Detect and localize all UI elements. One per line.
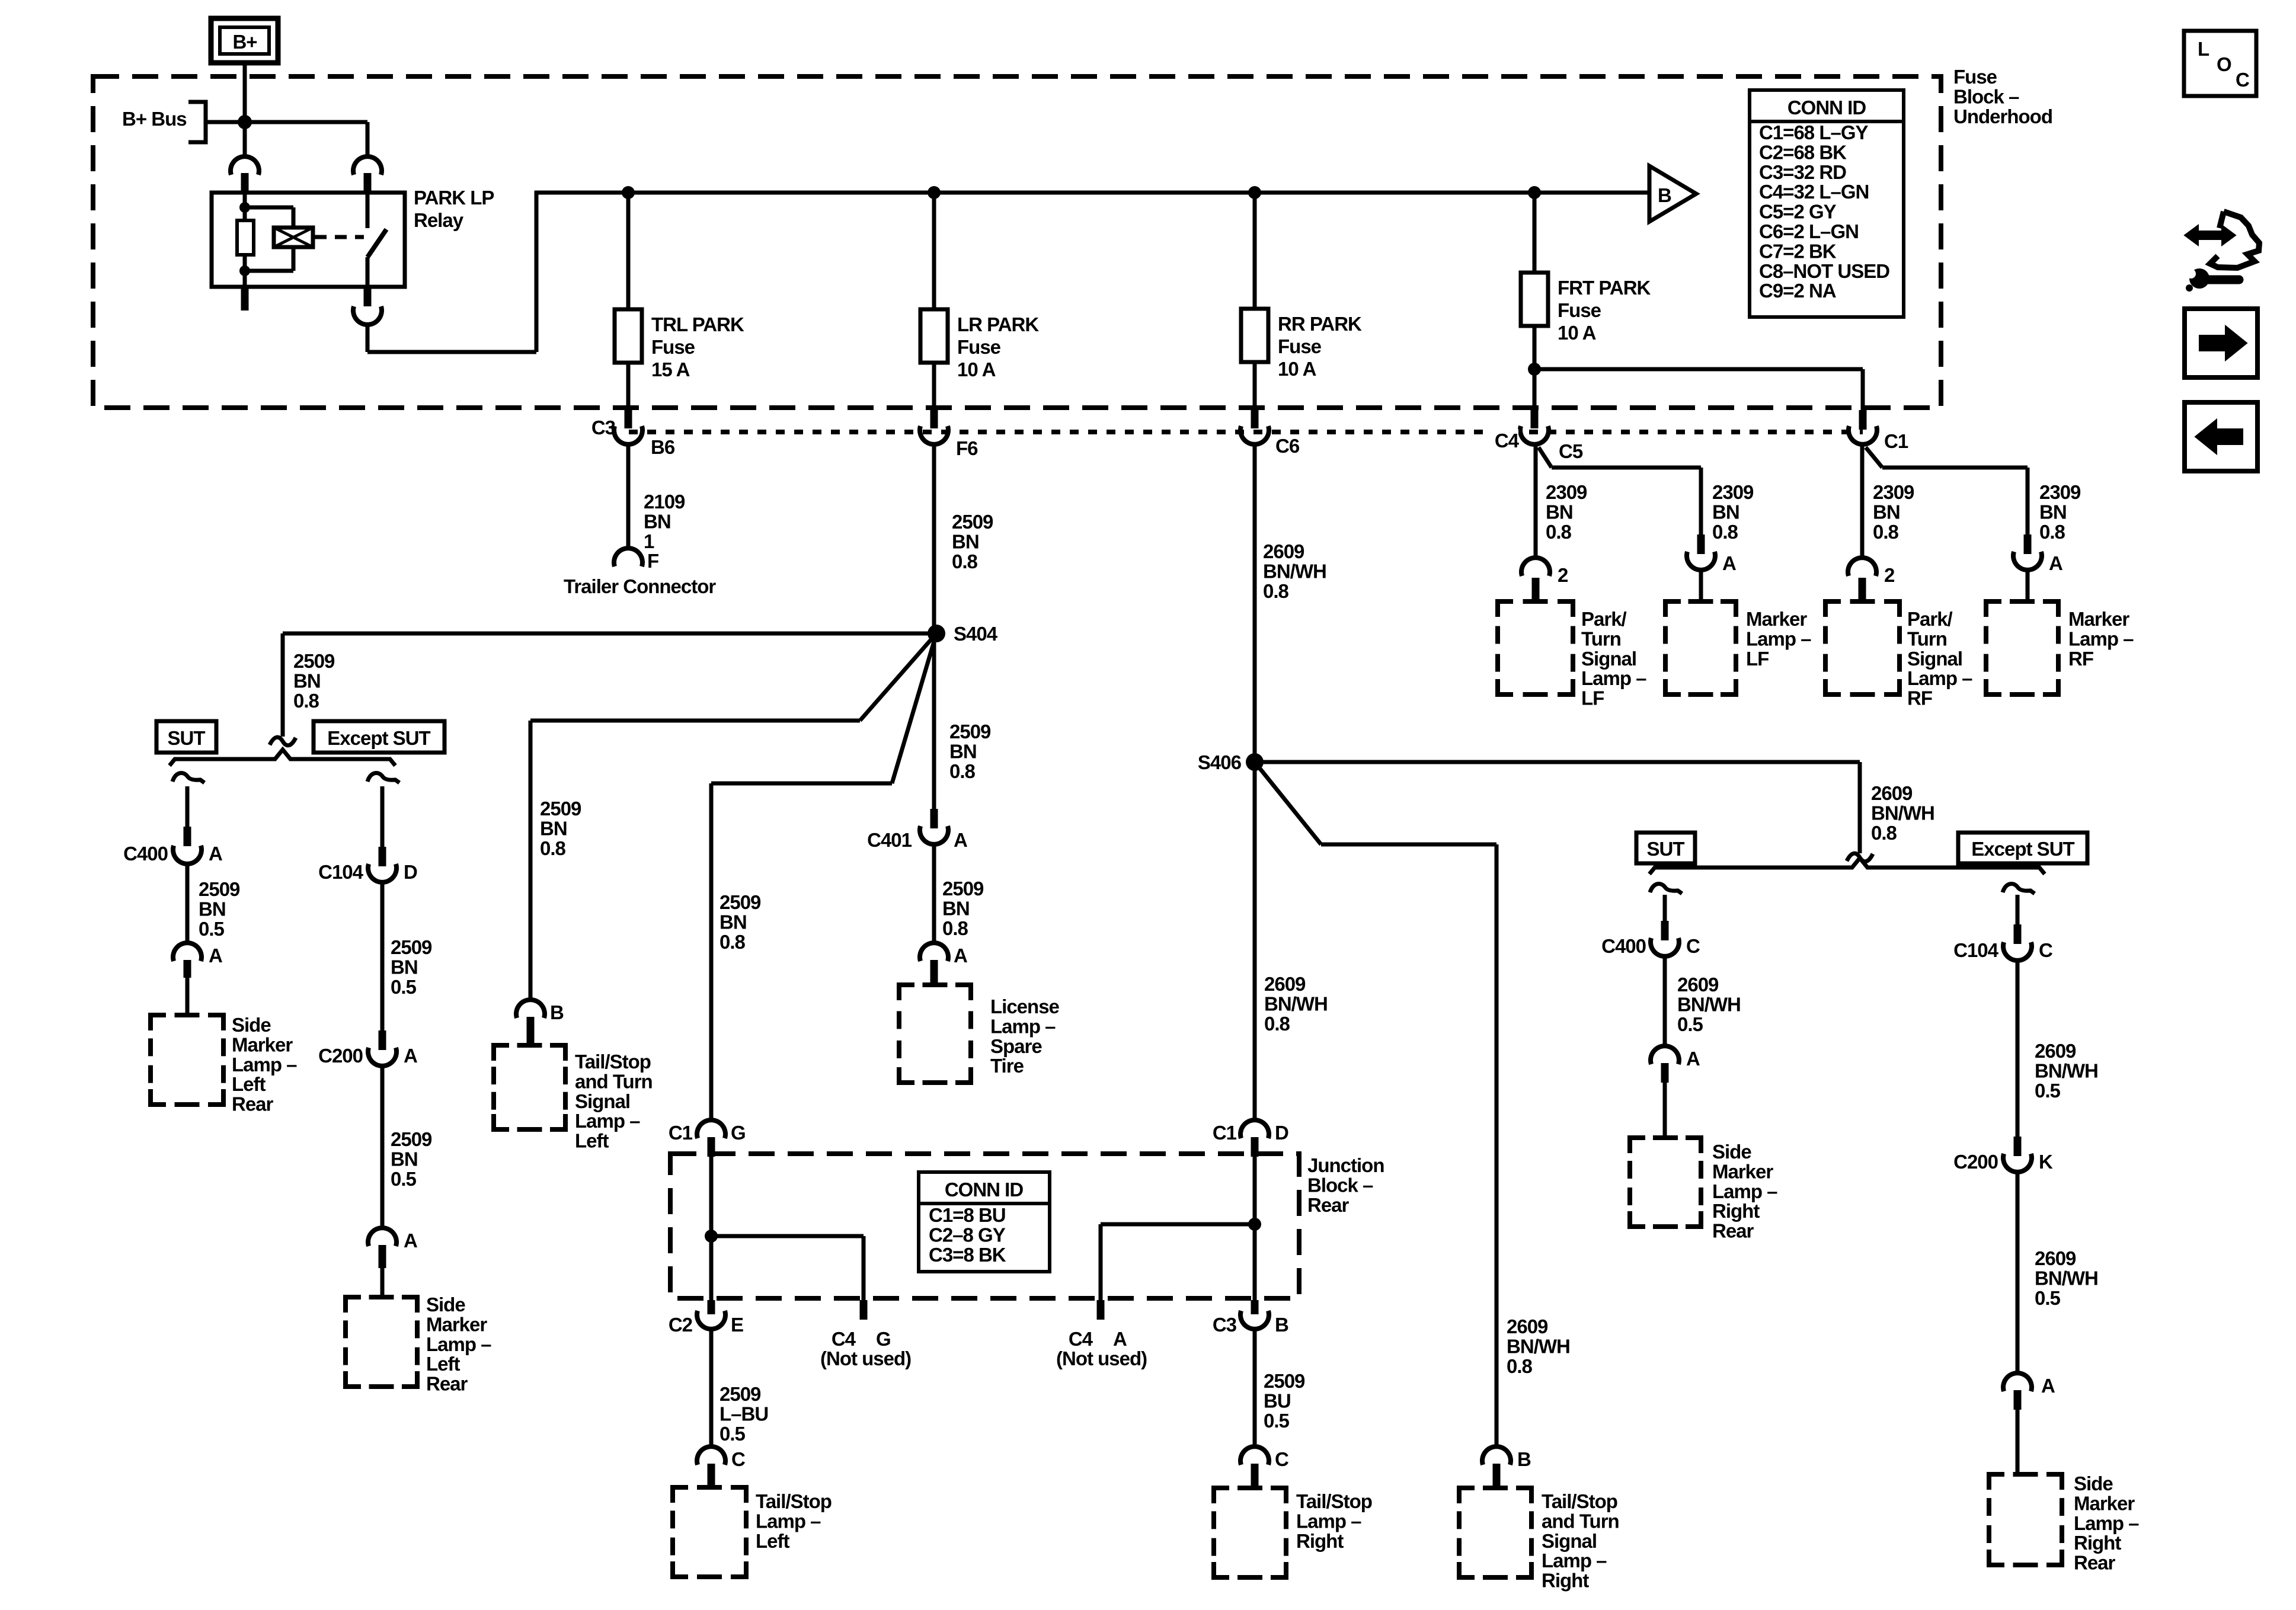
wire marker LF to box — [1699, 572, 1703, 601]
svg-text:Right: Right — [1712, 1200, 1760, 1222]
node S404 splice dot — [928, 625, 945, 642]
svg-text:C3: C3 — [1213, 1314, 1237, 1336]
svg-text:C1=8 BU: C1=8 BU — [929, 1204, 1006, 1226]
svg-text:C7=2 BK: C7=2 BK — [1759, 240, 1837, 262]
fuse TRL PARK 15A — [615, 309, 642, 363]
svg-text:BN: BN — [1712, 501, 1739, 523]
svg-text:2609: 2609 — [1263, 540, 1304, 562]
pin tail/stop lamp left — [708, 1464, 715, 1488]
connector C1 D cap — [1240, 1120, 1269, 1138]
wire TRL fuse to connector — [626, 363, 631, 410]
wire relay coil internal top — [243, 193, 247, 220]
pin park/turn RF — [1859, 578, 1866, 601]
pin C3 B6 — [625, 409, 632, 428]
svg-text:SUT: SUT — [1647, 838, 1685, 860]
wire relay switch to bottom — [366, 257, 370, 287]
relay coil pin — [241, 173, 249, 193]
svg-text:BN: BN — [540, 817, 567, 839]
svg-text:E: E — [731, 1314, 743, 1336]
branch curl Except SUT right — [2003, 884, 2035, 894]
svg-text:Park/: Park/ — [1907, 608, 1953, 630]
svg-text:C: C — [1275, 1448, 1288, 1470]
pin license lamp — [930, 960, 938, 985]
svg-text:Fuse: Fuse — [651, 336, 695, 358]
svg-text:C1: C1 — [669, 1122, 693, 1144]
tail/stop lamp - left box — [673, 1487, 688, 1503]
wire break squiggle left group — [270, 737, 296, 745]
svg-text:C200: C200 — [1953, 1151, 1998, 1173]
svg-text:C5=2 GY: C5=2 GY — [1759, 201, 1837, 223]
svg-text:A: A — [954, 945, 967, 966]
svg-text:Rear: Rear — [2074, 1552, 2116, 1574]
svg-text:2509: 2509 — [949, 721, 991, 742]
wire sut right branch down — [1663, 895, 1667, 924]
svg-text:10 A: 10 A — [957, 359, 996, 380]
wire relay output right — [367, 350, 536, 354]
svg-text:Marker: Marker — [232, 1033, 293, 1055]
svg-text:B+: B+ — [232, 31, 257, 53]
svg-text:2509: 2509 — [720, 891, 761, 913]
svg-text:2609: 2609 — [1677, 974, 1719, 996]
connector C3 B cup — [1240, 1311, 1269, 1329]
svg-text:C104: C104 — [318, 861, 364, 883]
svg-text:0.8: 0.8 — [942, 917, 968, 939]
svg-text:C: C — [2236, 69, 2249, 91]
svg-text:10 A: 10 A — [1278, 358, 1316, 380]
svg-text:Lamp –: Lamp – — [990, 1015, 1056, 1037]
pin C104 C — [2014, 924, 2022, 944]
svg-text:LR PARK: LR PARK — [957, 313, 1039, 335]
wire LR fuse to connector — [932, 363, 936, 410]
svg-text:G: G — [876, 1328, 891, 1350]
svg-text:2509: 2509 — [1264, 1370, 1305, 1392]
svg-text:Side: Side — [2074, 1473, 2113, 1494]
svg-text:Tail/Stop: Tail/Stop — [1542, 1490, 1617, 1512]
connector C200 K cup — [2003, 1154, 2032, 1172]
wire S404 branch A diagonal — [860, 633, 936, 721]
wire FRT branch down to C1 — [1861, 369, 1865, 411]
svg-text:C4=32 L–GN: C4=32 L–GN — [1759, 181, 1869, 203]
svg-text:D: D — [404, 861, 417, 883]
svg-text:Lamp –: Lamp – — [426, 1333, 491, 1355]
svg-text:A: A — [954, 829, 967, 851]
svg-text:Lamp –: Lamp – — [2074, 1512, 2139, 1534]
svg-text:and Turn: and Turn — [575, 1070, 653, 1092]
option box Except SUT left — [314, 721, 445, 753]
wire except-sut right branch down — [2016, 895, 2020, 924]
connector 2 cap RF — [1848, 558, 1876, 576]
pin C4 G not used — [860, 1300, 868, 1320]
wire marker RF to box — [2026, 572, 2030, 601]
svg-text:0.8: 0.8 — [952, 550, 978, 572]
svg-text:LF: LF — [1746, 648, 1769, 670]
node S406 splice dot — [1246, 753, 1264, 771]
svg-text:2309: 2309 — [1712, 481, 1754, 503]
node FRT branch dot — [1528, 363, 1541, 376]
connector A cap right sut — [1651, 1046, 1679, 1064]
relay coil box — [274, 228, 313, 247]
net arrow B — [1649, 166, 1696, 222]
svg-text:A: A — [2049, 552, 2062, 574]
svg-text:Underhood: Underhood — [1953, 105, 2052, 127]
svg-text:Left: Left — [232, 1073, 266, 1095]
connector F trailer cap — [614, 548, 642, 566]
svg-text:Tail/Stop: Tail/Stop — [575, 1051, 651, 1073]
svg-text:0.5: 0.5 — [1264, 1410, 1290, 1432]
wire down to tail/stop turn right — [1495, 844, 1499, 1446]
svg-text:BN/WH: BN/WH — [2035, 1267, 2098, 1289]
fuse LR PARK 10A — [920, 309, 948, 363]
svg-text:BN: BN — [949, 740, 977, 762]
svg-text:2: 2 — [1884, 564, 1895, 586]
svg-text:Side: Side — [426, 1294, 465, 1315]
svg-text:2309: 2309 — [1546, 481, 1587, 503]
svg-text:G: G — [731, 1122, 746, 1144]
connector C104 cup — [368, 864, 396, 882]
svg-text:RR PARK: RR PARK — [1278, 313, 1362, 335]
connector B tail-stop-left cap — [516, 1000, 545, 1018]
svg-text:Block –: Block – — [1953, 85, 2019, 107]
relay switch pin connector cap — [353, 156, 382, 175]
relay coil X — [274, 228, 313, 247]
wire S404 to C401 — [932, 633, 936, 812]
wire bus to RR fuse — [1253, 193, 1257, 309]
svg-text:C: C — [731, 1448, 745, 1470]
svg-text:Signal: Signal — [575, 1090, 630, 1112]
svg-text:0.8: 0.8 — [1712, 521, 1738, 543]
svg-text:2509: 2509 — [293, 650, 335, 672]
svg-text:Junction: Junction — [1307, 1154, 1384, 1176]
connector A cup marker LF — [1687, 552, 1715, 570]
svg-text:2609: 2609 — [1507, 1315, 1548, 1337]
icon forward arrow — [2199, 326, 2247, 360]
connector A license cap — [920, 943, 948, 961]
svg-text:Tail/Stop: Tail/Stop — [756, 1490, 832, 1512]
svg-text:BN/WH: BN/WH — [2035, 1060, 2098, 1081]
tail/stop and turn signal lamp - right box — [1459, 1488, 1475, 1503]
svg-text:BN: BN — [952, 530, 979, 552]
svg-text:CONN ID: CONN ID — [1787, 97, 1866, 119]
junction block - rear dashed border — [670, 1154, 1299, 1298]
svg-text:2509: 2509 — [942, 878, 984, 900]
svg-text:C400: C400 — [1601, 935, 1646, 957]
svg-text:Block –: Block – — [1307, 1174, 1373, 1196]
wire C200K to A conn — [2016, 1174, 2020, 1372]
svg-text:C1=68 L–GY: C1=68 L–GY — [1759, 121, 1869, 143]
pin side marker left rear xsut — [379, 1245, 386, 1268]
wire relay output down — [366, 327, 370, 352]
node junction left dot — [705, 1230, 718, 1243]
wire to side marker right box — [1663, 1083, 1667, 1138]
svg-text:Except SUT: Except SUT — [1971, 838, 2074, 860]
node junction right dot — [1248, 1218, 1261, 1231]
resistor relay coil shunt — [237, 220, 254, 255]
svg-text:L–BU: L–BU — [720, 1403, 768, 1425]
wire C104 to C200 — [380, 884, 385, 1034]
pin C4 A not used — [1097, 1300, 1105, 1320]
wire S406 to C1 D — [1253, 762, 1257, 1119]
svg-text:D: D — [1275, 1122, 1288, 1144]
icon back arrow — [2195, 420, 2243, 454]
B+ power feed box — [211, 18, 278, 63]
svg-text:License: License — [990, 996, 1060, 1017]
wire S404 branch C down — [281, 633, 285, 737]
svg-text:BN/WH: BN/WH — [1871, 802, 1934, 824]
pin side marker right rear — [2014, 1390, 2022, 1410]
wire 2509 BN to S404 — [932, 446, 936, 633]
pin C4 underhood — [1531, 409, 1539, 428]
svg-text:Side: Side — [232, 1014, 271, 1036]
pin C400 C — [1661, 921, 1669, 940]
svg-text:Fuse: Fuse — [1558, 299, 1601, 321]
connector C400 C cup — [1651, 938, 1679, 956]
connector A cup marker RF — [2013, 552, 2042, 570]
svg-text:Fuse: Fuse — [1278, 335, 1322, 357]
pin tail/stop lamp right — [1251, 1464, 1259, 1488]
relay actuator dashed link — [315, 235, 364, 239]
svg-text:Left: Left — [426, 1353, 461, 1375]
wire C200 to A conn — [380, 1068, 385, 1227]
svg-text:0.8: 0.8 — [720, 931, 746, 953]
svg-text:0.8: 0.8 — [1263, 580, 1289, 602]
wire S404 branch B diagonal — [892, 633, 936, 783]
connector C400 cup — [173, 846, 202, 864]
svg-text:Lamp –: Lamp – — [1907, 667, 1972, 689]
wire C5 down — [1699, 468, 1703, 538]
wire C104C to C200K — [2016, 962, 2020, 1140]
svg-text:C2=68 BK: C2=68 BK — [1759, 141, 1847, 163]
svg-text:2509: 2509 — [952, 511, 993, 533]
wire bus to relay switch pin — [245, 120, 367, 124]
wire FRT fuse down — [1533, 326, 1537, 410]
side marker lamp - right rear box — [1989, 1474, 2004, 1490]
wire 2609 BN/WH to S406 — [1253, 446, 1257, 762]
svg-text:Signal: Signal — [1542, 1530, 1597, 1552]
node B+ bus junction dot — [238, 115, 252, 129]
svg-text:C3=32 RD: C3=32 RD — [1759, 161, 1846, 183]
wire branch to C4 A — [1101, 1222, 1255, 1227]
relay coil pin connector cap — [231, 156, 259, 175]
node bus junction FRT — [1528, 186, 1541, 199]
marker lamp RF box — [1986, 601, 2001, 617]
wire C2E to tail/stop left — [709, 1331, 714, 1446]
fuse block - underhood dashed border — [93, 76, 1941, 408]
svg-text:BN: BN — [2039, 501, 2067, 523]
svg-text:10 A: 10 A — [1558, 322, 1596, 344]
svg-text:Except SUT: Except SUT — [327, 727, 430, 749]
svg-text:C2–8 GY: C2–8 GY — [929, 1224, 1006, 1246]
svg-text:Left: Left — [756, 1530, 790, 1552]
svg-text:A: A — [1722, 552, 1736, 574]
wire bus to LR fuse — [932, 193, 936, 309]
svg-text:Relay: Relay — [414, 209, 464, 231]
side marker lamp - left rear box sut — [151, 1015, 166, 1030]
svg-text:C4: C4 — [1495, 430, 1520, 452]
wire coil branch top — [245, 206, 293, 210]
connector C6 cup — [1240, 426, 1269, 444]
svg-text:K: K — [2039, 1151, 2053, 1173]
svg-text:A: A — [404, 1230, 417, 1251]
svg-text:B: B — [1517, 1448, 1531, 1470]
svg-text:BN: BN — [199, 898, 226, 920]
svg-text:C: C — [1686, 935, 1700, 957]
node bus junction RR — [1248, 186, 1261, 199]
svg-text:0.5: 0.5 — [391, 976, 417, 998]
svg-text:Turn: Turn — [1907, 628, 1947, 649]
B+ Bus bracket — [188, 102, 206, 142]
svg-text:Marker: Marker — [426, 1313, 487, 1335]
svg-text:A: A — [1113, 1328, 1127, 1350]
side marker lamp - right box sut — [1630, 1138, 1645, 1153]
wire bus to TRL fuse — [626, 193, 631, 309]
svg-text:SUT: SUT — [168, 727, 206, 749]
svg-text:Lamp –: Lamp – — [1296, 1510, 1361, 1532]
pin park/turn LF — [1532, 578, 1540, 601]
wire C400C to A conn — [1663, 958, 1667, 1045]
connector C104 C cup — [2003, 942, 2032, 961]
node relay coil bottom dot — [239, 265, 250, 276]
svg-text:F6: F6 — [956, 437, 978, 459]
tail/stop and turn signal lamp - left box — [494, 1045, 509, 1061]
svg-text:0.5: 0.5 — [2035, 1080, 2061, 1102]
node relay coil top dot — [239, 202, 250, 213]
connector B cap tail/stop+turn right — [1482, 1446, 1511, 1465]
svg-text:0.8: 0.8 — [1264, 1013, 1290, 1035]
svg-text:Fuse: Fuse — [957, 336, 1001, 358]
wire S404 branch A horizontal — [530, 719, 860, 723]
svg-text:Spare: Spare — [990, 1035, 1042, 1057]
side marker lamp - left rear box xsut — [346, 1297, 361, 1313]
wire S406 right branch — [1255, 760, 1860, 764]
svg-text:C401: C401 — [867, 829, 912, 851]
svg-text:0.8: 0.8 — [2039, 521, 2065, 543]
svg-text:C200: C200 — [318, 1045, 363, 1067]
svg-text:Marker: Marker — [1746, 608, 1807, 630]
connector C cap tail/stop left — [697, 1446, 725, 1465]
svg-text:Tire: Tire — [990, 1055, 1024, 1077]
svg-text:(Not used): (Not used) — [820, 1347, 911, 1369]
wire S406 diag horizontal — [1321, 843, 1496, 847]
pin C6 — [1251, 409, 1259, 428]
pin C1 G — [708, 1137, 715, 1157]
svg-text:RF: RF — [2068, 648, 2093, 670]
wire relay switch internal — [366, 193, 370, 228]
svg-text:Lamp –: Lamp – — [1712, 1180, 1777, 1202]
svg-text:B+ Bus: B+ Bus — [122, 108, 187, 130]
svg-text:0.5: 0.5 — [391, 1168, 417, 1190]
svg-text:2609: 2609 — [2035, 1040, 2076, 1062]
svg-text:15 A: 15 A — [651, 359, 690, 380]
pin C2 E — [708, 1300, 715, 1314]
option box SUT left — [156, 721, 216, 753]
svg-text:2509: 2509 — [391, 936, 432, 958]
svg-text:Right: Right — [1542, 1570, 1589, 1592]
svg-text:C: C — [2039, 939, 2052, 961]
svg-text:2309: 2309 — [2039, 481, 2081, 503]
connector A cap left rear xsut — [368, 1228, 396, 1246]
svg-text:Lamp –: Lamp – — [1746, 628, 1811, 649]
svg-text:C9=2 NA: C9=2 NA — [1759, 280, 1836, 302]
svg-text:BN/WH: BN/WH — [1264, 993, 1328, 1014]
connector A cap right rear — [2003, 1373, 2032, 1391]
svg-text:PARK LP: PARK LP — [414, 187, 494, 209]
svg-text:BN: BN — [293, 670, 321, 692]
svg-text:Rear: Rear — [1307, 1194, 1350, 1216]
pin marker RF — [2024, 534, 2032, 554]
wire S404 branch B down — [709, 783, 714, 1119]
wire B+ bus junction — [206, 120, 245, 124]
wire C401 to license lamp — [932, 846, 936, 942]
svg-text:A: A — [209, 945, 222, 966]
wire main bus — [535, 191, 1651, 195]
pin C1 underhood — [1859, 410, 1867, 430]
pin C401 — [930, 809, 938, 828]
pin C400 A — [184, 827, 191, 846]
icon back arrow box — [2185, 402, 2257, 471]
svg-text:Right: Right — [2074, 1532, 2121, 1554]
park/turn signal lamp LF box — [1498, 601, 1513, 617]
svg-text:Lamp –: Lamp – — [575, 1110, 640, 1132]
svg-text:Lamp –: Lamp – — [756, 1510, 821, 1532]
option box SUT right — [1636, 833, 1695, 863]
svg-text:Lamp –: Lamp – — [2068, 628, 2134, 649]
wire riser to bus — [535, 191, 539, 352]
connector C1 G cap — [697, 1120, 725, 1138]
relay coil ground stub pin — [241, 287, 249, 311]
svg-text:BU: BU — [1264, 1390, 1291, 1411]
svg-text:B6: B6 — [651, 436, 675, 458]
svg-text:Tail/Stop: Tail/Stop — [1296, 1490, 1372, 1512]
CONN ID table rear — [919, 1172, 1050, 1272]
svg-text:Right: Right — [1296, 1530, 1344, 1552]
connector row dotted line — [629, 430, 1863, 434]
option brace right — [1649, 858, 2045, 874]
icon wrench — [2189, 268, 2209, 289]
svg-text:A: A — [1686, 1048, 1700, 1070]
svg-text:Turn: Turn — [1581, 628, 1621, 649]
svg-text:C8–NOT USED: C8–NOT USED — [1759, 260, 1889, 282]
svg-text:Signal: Signal — [1907, 648, 1962, 670]
marker lamp LF box — [1665, 601, 1681, 617]
wire to side marker left rear — [186, 978, 190, 1015]
fuse FRT PARK 10A — [1521, 273, 1548, 326]
svg-text:F: F — [647, 550, 658, 572]
svg-text:S404: S404 — [954, 623, 998, 645]
svg-text:S406: S406 — [1198, 751, 1242, 773]
svg-text:BN: BN — [644, 510, 671, 532]
svg-text:2309: 2309 — [1873, 481, 1914, 503]
wire C4 to park/turn LF — [1534, 446, 1538, 557]
svg-text:L: L — [2198, 38, 2209, 60]
wire RR fuse to connector — [1253, 362, 1257, 410]
pin C200 A — [379, 1030, 386, 1050]
wire S404 branch B horizontal — [711, 782, 892, 786]
wire C1 down — [2026, 468, 2030, 538]
svg-text:Rear: Rear — [232, 1093, 274, 1115]
icon forward arrow box — [2185, 309, 2257, 377]
svg-text:C2: C2 — [669, 1314, 693, 1336]
wire C1 horizontal — [1882, 466, 2028, 470]
svg-text:BN: BN — [1546, 501, 1573, 523]
svg-text:(Not used): (Not used) — [1056, 1347, 1147, 1369]
svg-text:Trailer Connector: Trailer Connector — [564, 575, 716, 597]
wire break squiggle right group — [1847, 853, 1873, 862]
svg-text:C6: C6 — [1275, 435, 1300, 457]
wire coil branch bottom — [245, 269, 293, 273]
pin C200 K — [2014, 1137, 2022, 1156]
svg-text:C4: C4 — [1069, 1328, 1093, 1350]
relay PARK LP box — [212, 193, 405, 287]
